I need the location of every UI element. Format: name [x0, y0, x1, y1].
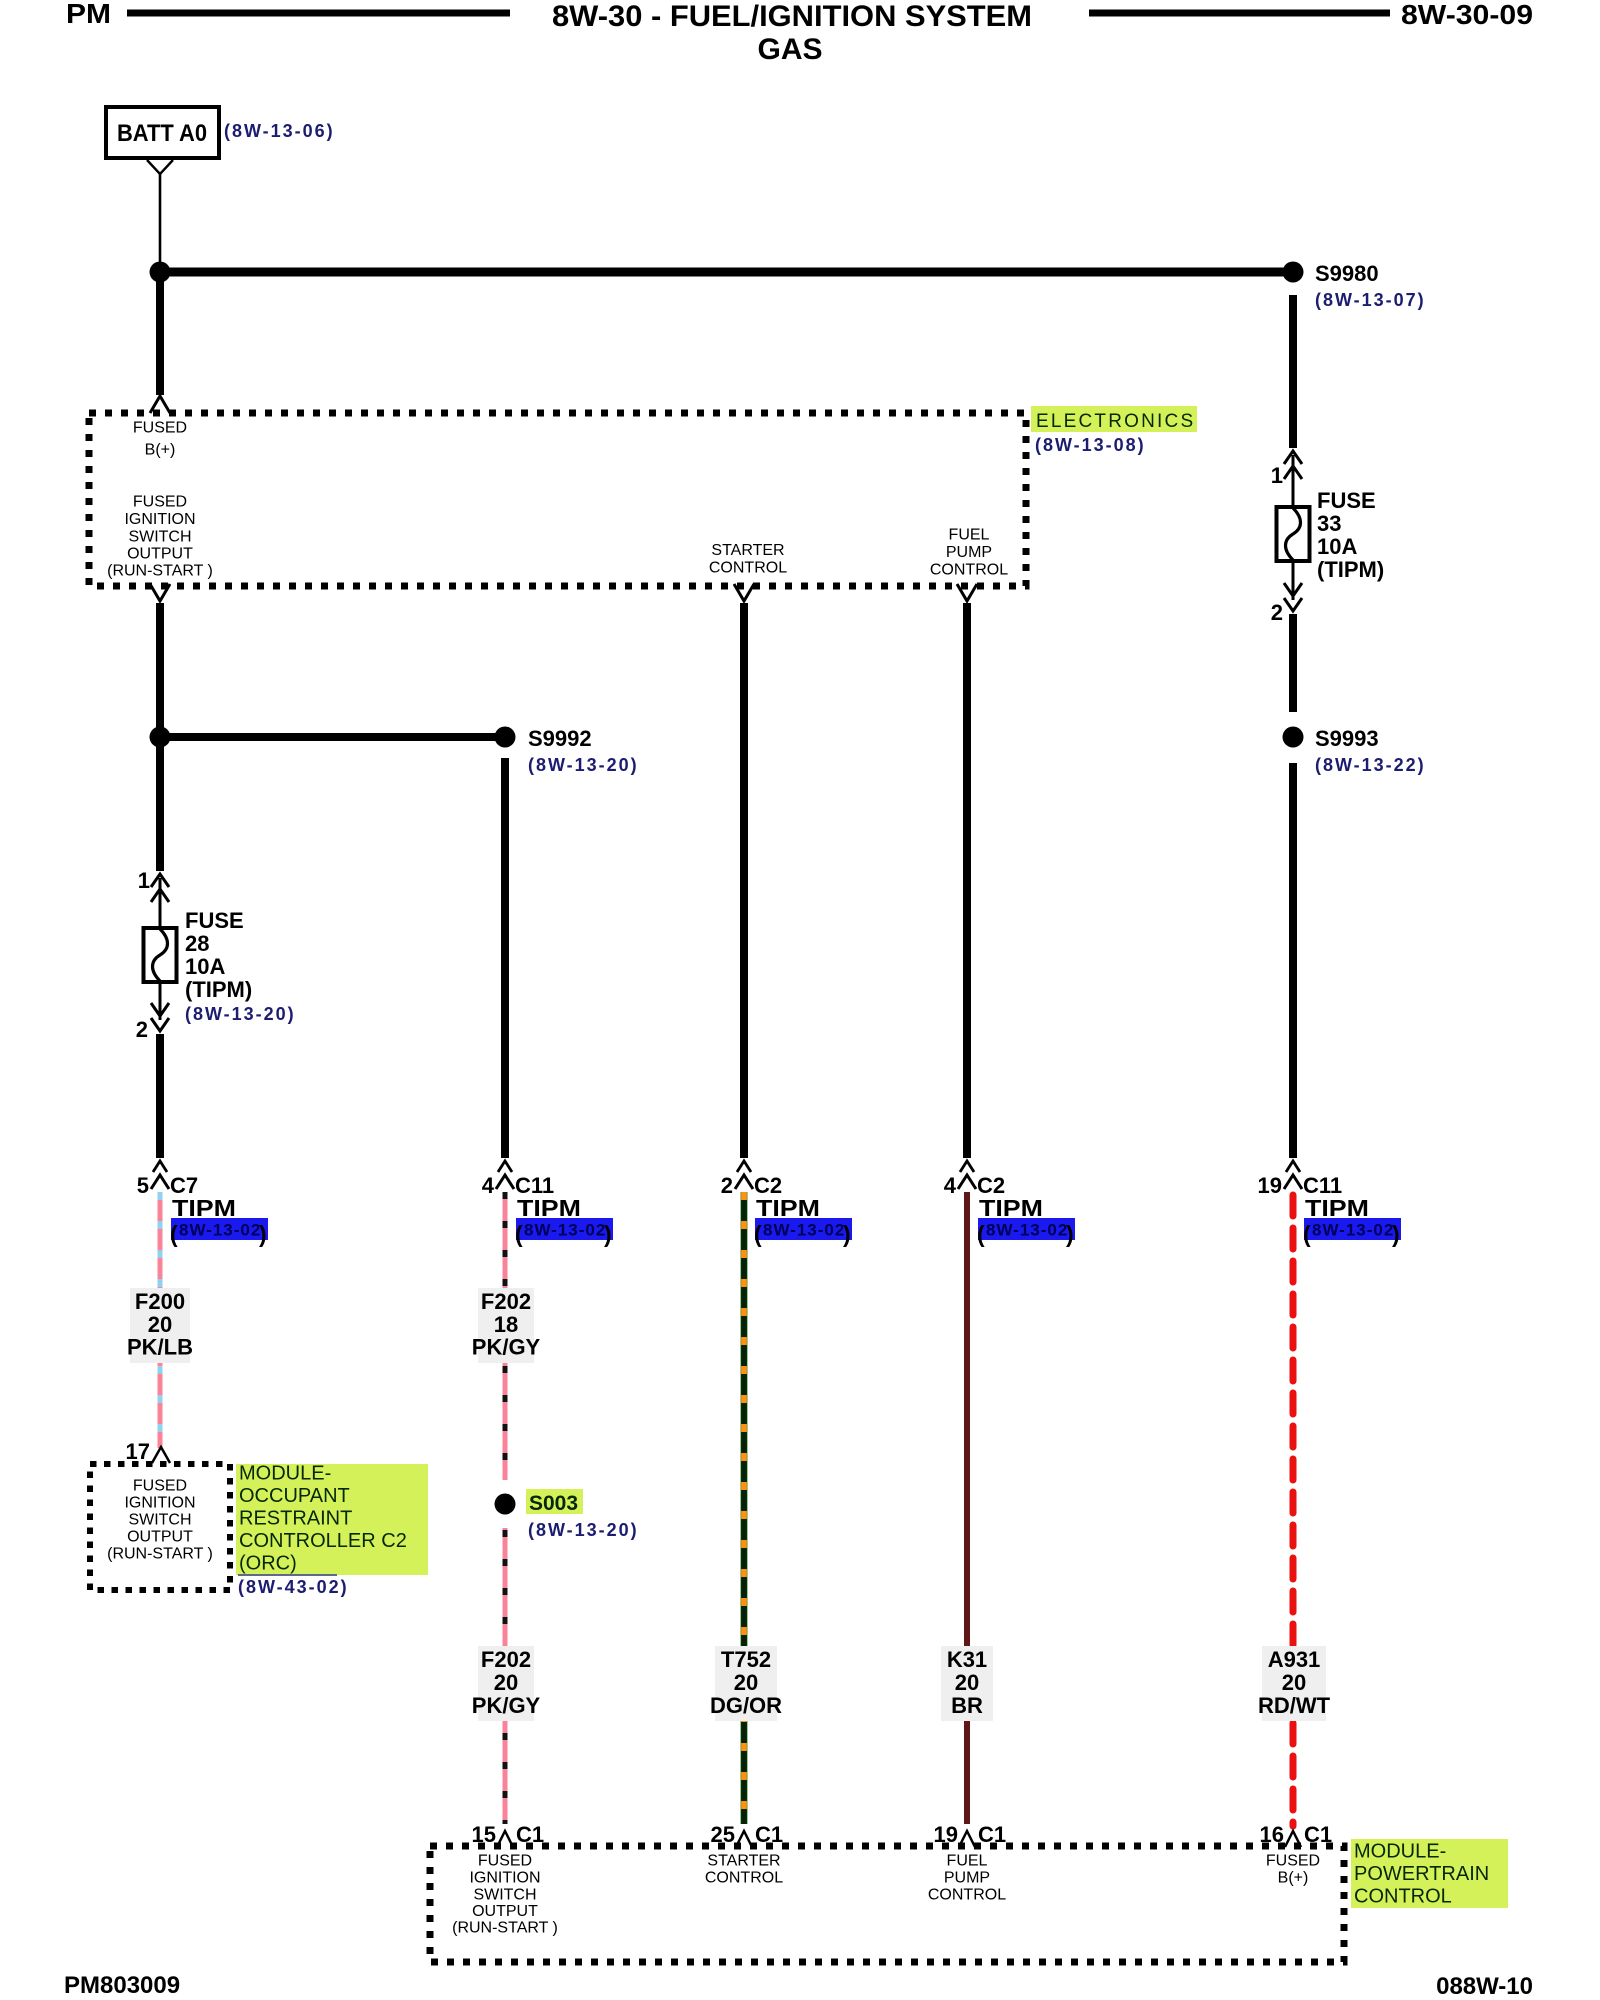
svg-text:FUSED: FUSED	[133, 494, 187, 511]
junction dot left	[150, 262, 171, 283]
wire starter control to connector C2 pin 2	[740, 603, 748, 1158]
fuse 28 10A (TIPM)	[144, 928, 177, 982]
svg-text:C1: C1	[1304, 1822, 1332, 1847]
label F202 20 PK/GY	[478, 1646, 534, 1721]
svg-text:F202: F202	[481, 1289, 531, 1314]
svg-text:(RUN-START ): (RUN-START )	[107, 1546, 213, 1563]
svg-text:FUEL: FUEL	[949, 527, 990, 544]
svg-text:B(+): B(+)	[1278, 1870, 1309, 1887]
svg-text:PK/LB: PK/LB	[127, 1334, 193, 1359]
svg-text:20: 20	[494, 1670, 518, 1695]
svg-text:19: 19	[1258, 1173, 1282, 1198]
svg-text:FUSE: FUSE	[185, 908, 244, 933]
svg-text:20: 20	[734, 1670, 758, 1695]
wire fuse 33 out	[1292, 561, 1295, 600]
svg-text:RESTRAINT: RESTRAINT	[239, 1507, 352, 1529]
label F202 18 PK/GY	[478, 1288, 534, 1363]
svg-text:5: 5	[137, 1173, 149, 1198]
exit chevron fuel pump control	[957, 584, 977, 601]
wire T752 20 DG/OR col3	[741, 1192, 748, 1824]
svg-text:8W-30-09: 8W-30-09	[1401, 0, 1533, 30]
svg-text:T752: T752	[721, 1647, 771, 1672]
svg-text:(: (	[1303, 1221, 1311, 1247]
svg-text:FUSED: FUSED	[133, 420, 187, 437]
svg-text:(8W-13-20): (8W-13-20)	[528, 755, 639, 775]
svg-text:(: (	[515, 1221, 523, 1247]
wire S9992 horizontal	[160, 733, 505, 741]
svg-text:8W-30 - FUEL/IGNITION SYSTEM: 8W-30 - FUEL/IGNITION SYSTEM	[552, 0, 1032, 33]
label A931 20 RD/WT	[1262, 1646, 1326, 1721]
svg-text:BR: BR	[951, 1693, 983, 1718]
connector TIPM C11 pin 4	[498, 1161, 512, 1172]
junction dot col1 S9992 branch	[150, 727, 171, 748]
wire fuse 33 to S9993	[1289, 614, 1297, 712]
wire fuel pump control to connector C2 pin 4	[963, 603, 971, 1158]
wire F200 20 PK/LB col1	[158, 1192, 163, 1448]
svg-text:(: (	[977, 1221, 985, 1247]
wire main bus horizontal	[160, 268, 1293, 277]
wire A931 20 RD/WT col5	[1290, 1195, 1297, 1826]
svg-text:MODULE-: MODULE-	[1354, 1840, 1446, 1862]
svg-text:A931: A931	[1268, 1647, 1321, 1672]
wire S9993 to connector C11 pin 19	[1289, 763, 1297, 1158]
label K31 20 BR	[941, 1646, 993, 1721]
connector ref 8W-13-02	[1304, 1218, 1401, 1240]
svg-text:CONTROLLER C2: CONTROLLER C2	[239, 1530, 407, 1552]
svg-text:(8W-13-20): (8W-13-20)	[528, 1520, 639, 1540]
wire fuse 28 to connector C7 pin 5	[156, 1034, 164, 1158]
svg-text:(: (	[170, 1221, 178, 1247]
svg-text:(RUN-START ): (RUN-START )	[107, 563, 213, 580]
svg-text:DG/OR: DG/OR	[710, 1693, 782, 1718]
label F200 20 PK/LB	[130, 1288, 190, 1363]
svg-text:20: 20	[1282, 1670, 1306, 1695]
svg-text:8W-13-02: 8W-13-02	[179, 1221, 261, 1240]
connector TIPM C11 pin 19	[1286, 1161, 1300, 1172]
svg-text:BATT A0: BATT A0	[117, 120, 207, 147]
svg-text:CONTROL: CONTROL	[1354, 1885, 1452, 1907]
wire col1 bus to TIPM box	[156, 276, 164, 395]
wire fuse 28 out	[159, 982, 162, 1020]
splice S9993	[1283, 727, 1304, 748]
svg-text:2: 2	[136, 1017, 148, 1042]
svg-text:FUSE: FUSE	[1317, 488, 1376, 513]
svg-text:S9992: S9992	[528, 726, 592, 751]
wire F202 20 PK/GY col2 lower	[503, 1528, 508, 1824]
svg-text:(8W-13-06): (8W-13-06)	[224, 121, 335, 141]
svg-text:8W-13-02: 8W-13-02	[1312, 1221, 1394, 1240]
svg-text:ELECTRONICS: ELECTRONICS	[1036, 411, 1195, 432]
svg-text:SWITCH: SWITCH	[473, 1887, 536, 1904]
svg-text:OCCUPANT: OCCUPANT	[239, 1485, 350, 1507]
svg-text:B(+): B(+)	[145, 442, 176, 459]
svg-text:TIPM: TIPM	[517, 1195, 581, 1221]
svg-text:8W-13-02: 8W-13-02	[986, 1221, 1068, 1240]
svg-text:TIPM: TIPM	[979, 1195, 1043, 1221]
svg-text:33: 33	[1317, 511, 1341, 536]
svg-text:F200: F200	[135, 1289, 185, 1314]
svg-text:(TIPM): (TIPM)	[1317, 557, 1384, 582]
svg-text:S9980: S9980	[1315, 261, 1379, 286]
splice S9992	[495, 727, 516, 748]
svg-text:CONTROL: CONTROL	[709, 560, 787, 577]
svg-text:(ORC): (ORC)	[239, 1552, 297, 1574]
svg-text:4: 4	[482, 1173, 495, 1198]
fuse F28 arrows in	[159, 878, 162, 930]
connector ref 8W-13-02	[755, 1218, 852, 1240]
wire K31 20 BR col4	[964, 1192, 970, 1824]
svg-text:(8W-43-02): (8W-43-02)	[238, 1577, 349, 1597]
svg-text:SWITCH: SWITCH	[128, 1512, 191, 1529]
exit chevron starter control	[734, 584, 754, 601]
svg-text:8W-13-02: 8W-13-02	[524, 1221, 606, 1240]
wire S9980 to fuse 33	[1289, 295, 1297, 448]
svg-text:C1: C1	[978, 1822, 1006, 1847]
svg-text:19: 19	[934, 1822, 958, 1847]
svg-text:PM803009: PM803009	[64, 1972, 180, 1999]
svg-text:STARTER: STARTER	[707, 1853, 780, 1870]
svg-text:STARTER: STARTER	[711, 542, 784, 559]
svg-text:4: 4	[944, 1173, 957, 1198]
module TIPM internal dashed box (ELECTRONICS)	[89, 413, 1026, 586]
svg-text:20: 20	[148, 1312, 172, 1337]
svg-text:OUTPUT: OUTPUT	[127, 1529, 193, 1546]
svg-text:POWERTRAIN: POWERTRAIN	[1354, 1863, 1489, 1885]
svg-text:IGNITION: IGNITION	[469, 1870, 540, 1887]
connector ref 8W-13-02	[978, 1218, 1075, 1240]
connector ref 8W-13-02	[171, 1218, 268, 1240]
svg-text:15: 15	[472, 1822, 496, 1847]
svg-text:8W-13-02: 8W-13-02	[763, 1221, 845, 1240]
svg-text:088W-10: 088W-10	[1436, 1973, 1533, 2000]
svg-text:SWITCH: SWITCH	[128, 529, 191, 546]
connector TIPM C2 pin 4	[960, 1161, 974, 1172]
svg-text:(8W-13-22): (8W-13-22)	[1315, 755, 1426, 775]
connector V under BATT A0	[147, 160, 173, 174]
svg-text:FUSED: FUSED	[478, 1853, 532, 1870]
fuse F33 arrows in	[1292, 455, 1295, 507]
svg-text:(8W-13-20): (8W-13-20)	[185, 1004, 296, 1024]
svg-text:FUSED: FUSED	[1266, 1853, 1320, 1870]
svg-text:1: 1	[138, 868, 150, 893]
svg-text:IGNITION: IGNITION	[124, 511, 195, 528]
svg-text:CONTROL: CONTROL	[930, 562, 1008, 579]
svg-text:C1: C1	[516, 1822, 544, 1847]
svg-text:C1: C1	[755, 1822, 783, 1847]
svg-text:(8W-13-08): (8W-13-08)	[1035, 435, 1146, 455]
svg-text:TIPM: TIPM	[172, 1195, 236, 1221]
svg-text:PM: PM	[66, 0, 111, 29]
svg-text:S003: S003	[529, 1492, 578, 1515]
module name MODULE-OCCUPANT RESTRAINT CONTROLLER C2 (ORC)	[236, 1464, 428, 1575]
svg-text:10A: 10A	[1317, 534, 1357, 559]
svg-text:F202: F202	[481, 1647, 531, 1672]
svg-text:GAS: GAS	[757, 33, 822, 66]
module PCM dashed box	[430, 1846, 1344, 1962]
fuse F28 arrows out	[151, 1003, 169, 1016]
svg-text:RD/WT: RD/WT	[1258, 1693, 1331, 1718]
svg-text:10A: 10A	[185, 954, 225, 979]
wire BATT A0 to splice S9980 bus	[159, 174, 162, 264]
svg-text:(TIPM): (TIPM)	[185, 977, 252, 1002]
svg-text:FUSED: FUSED	[133, 1478, 187, 1495]
svg-text:2: 2	[1271, 600, 1283, 625]
svg-text:16: 16	[1260, 1822, 1284, 1847]
splice S003	[495, 1494, 516, 1515]
svg-text:K31: K31	[947, 1647, 987, 1672]
entry chevron col1 TIPM box	[150, 396, 170, 413]
svg-text:FUEL: FUEL	[947, 1853, 988, 1870]
svg-text:TIPM: TIPM	[1305, 1195, 1369, 1221]
svg-text:MODULE-: MODULE-	[239, 1462, 331, 1484]
wire F202 18 PK/GY col2 upper	[503, 1192, 508, 1480]
svg-text:OUTPUT: OUTPUT	[127, 546, 193, 563]
svg-text:1: 1	[1271, 463, 1283, 488]
svg-text:CONTROL: CONTROL	[928, 1887, 1006, 1904]
svg-text:S9993: S9993	[1315, 726, 1379, 751]
svg-text:(8W-13-07): (8W-13-07)	[1315, 290, 1426, 310]
svg-text:(RUN-START ): (RUN-START )	[452, 1920, 558, 1937]
connector TIPM C2 pin 2	[737, 1161, 751, 1172]
header rule right	[1089, 10, 1390, 17]
entry chevron ORC	[152, 1447, 170, 1463]
svg-text:TIPM: TIPM	[756, 1195, 820, 1221]
svg-text:OUTPUT: OUTPUT	[472, 1903, 538, 1920]
label T752 20 DG/OR	[715, 1646, 777, 1721]
link rule ORC	[238, 1574, 337, 1576]
svg-text:PK/GY: PK/GY	[472, 1693, 541, 1718]
svg-text:IGNITION: IGNITION	[124, 1495, 195, 1512]
connector TIPM C7 pin 5	[153, 1161, 167, 1172]
svg-text:2: 2	[721, 1173, 733, 1198]
wire S9992 to connector C11 pin 4	[501, 758, 509, 1158]
connector ref 8W-13-02	[516, 1218, 613, 1240]
svg-text:28: 28	[185, 931, 209, 956]
battery feed box BATT A0	[106, 107, 219, 158]
module ORC dashed box	[90, 1464, 230, 1590]
module name MODULE-POWERTRAIN CONTROL	[1351, 1839, 1508, 1908]
svg-text:PK/GY: PK/GY	[472, 1334, 541, 1359]
svg-text:20: 20	[955, 1670, 979, 1695]
wire col1 S9992 to fuse 28	[156, 741, 164, 871]
exit chevron col1 from TIPM box	[150, 584, 170, 601]
wire col1 TIPM box to S9992	[156, 603, 164, 730]
fuse 33 10A (TIPM)	[1277, 507, 1310, 561]
module name ELECTRONICS	[1031, 406, 1197, 432]
svg-text:PUMP: PUMP	[944, 1870, 990, 1887]
header rule left	[127, 10, 510, 17]
svg-text:18: 18	[494, 1312, 518, 1337]
splice S9980	[1283, 262, 1304, 283]
svg-text:(: (	[754, 1221, 762, 1247]
fuse F33 arrows out	[1284, 583, 1302, 596]
svg-text:PUMP: PUMP	[946, 544, 992, 561]
svg-text:CONTROL: CONTROL	[705, 1870, 783, 1887]
svg-text:17: 17	[126, 1439, 150, 1464]
svg-text:25: 25	[711, 1822, 735, 1847]
